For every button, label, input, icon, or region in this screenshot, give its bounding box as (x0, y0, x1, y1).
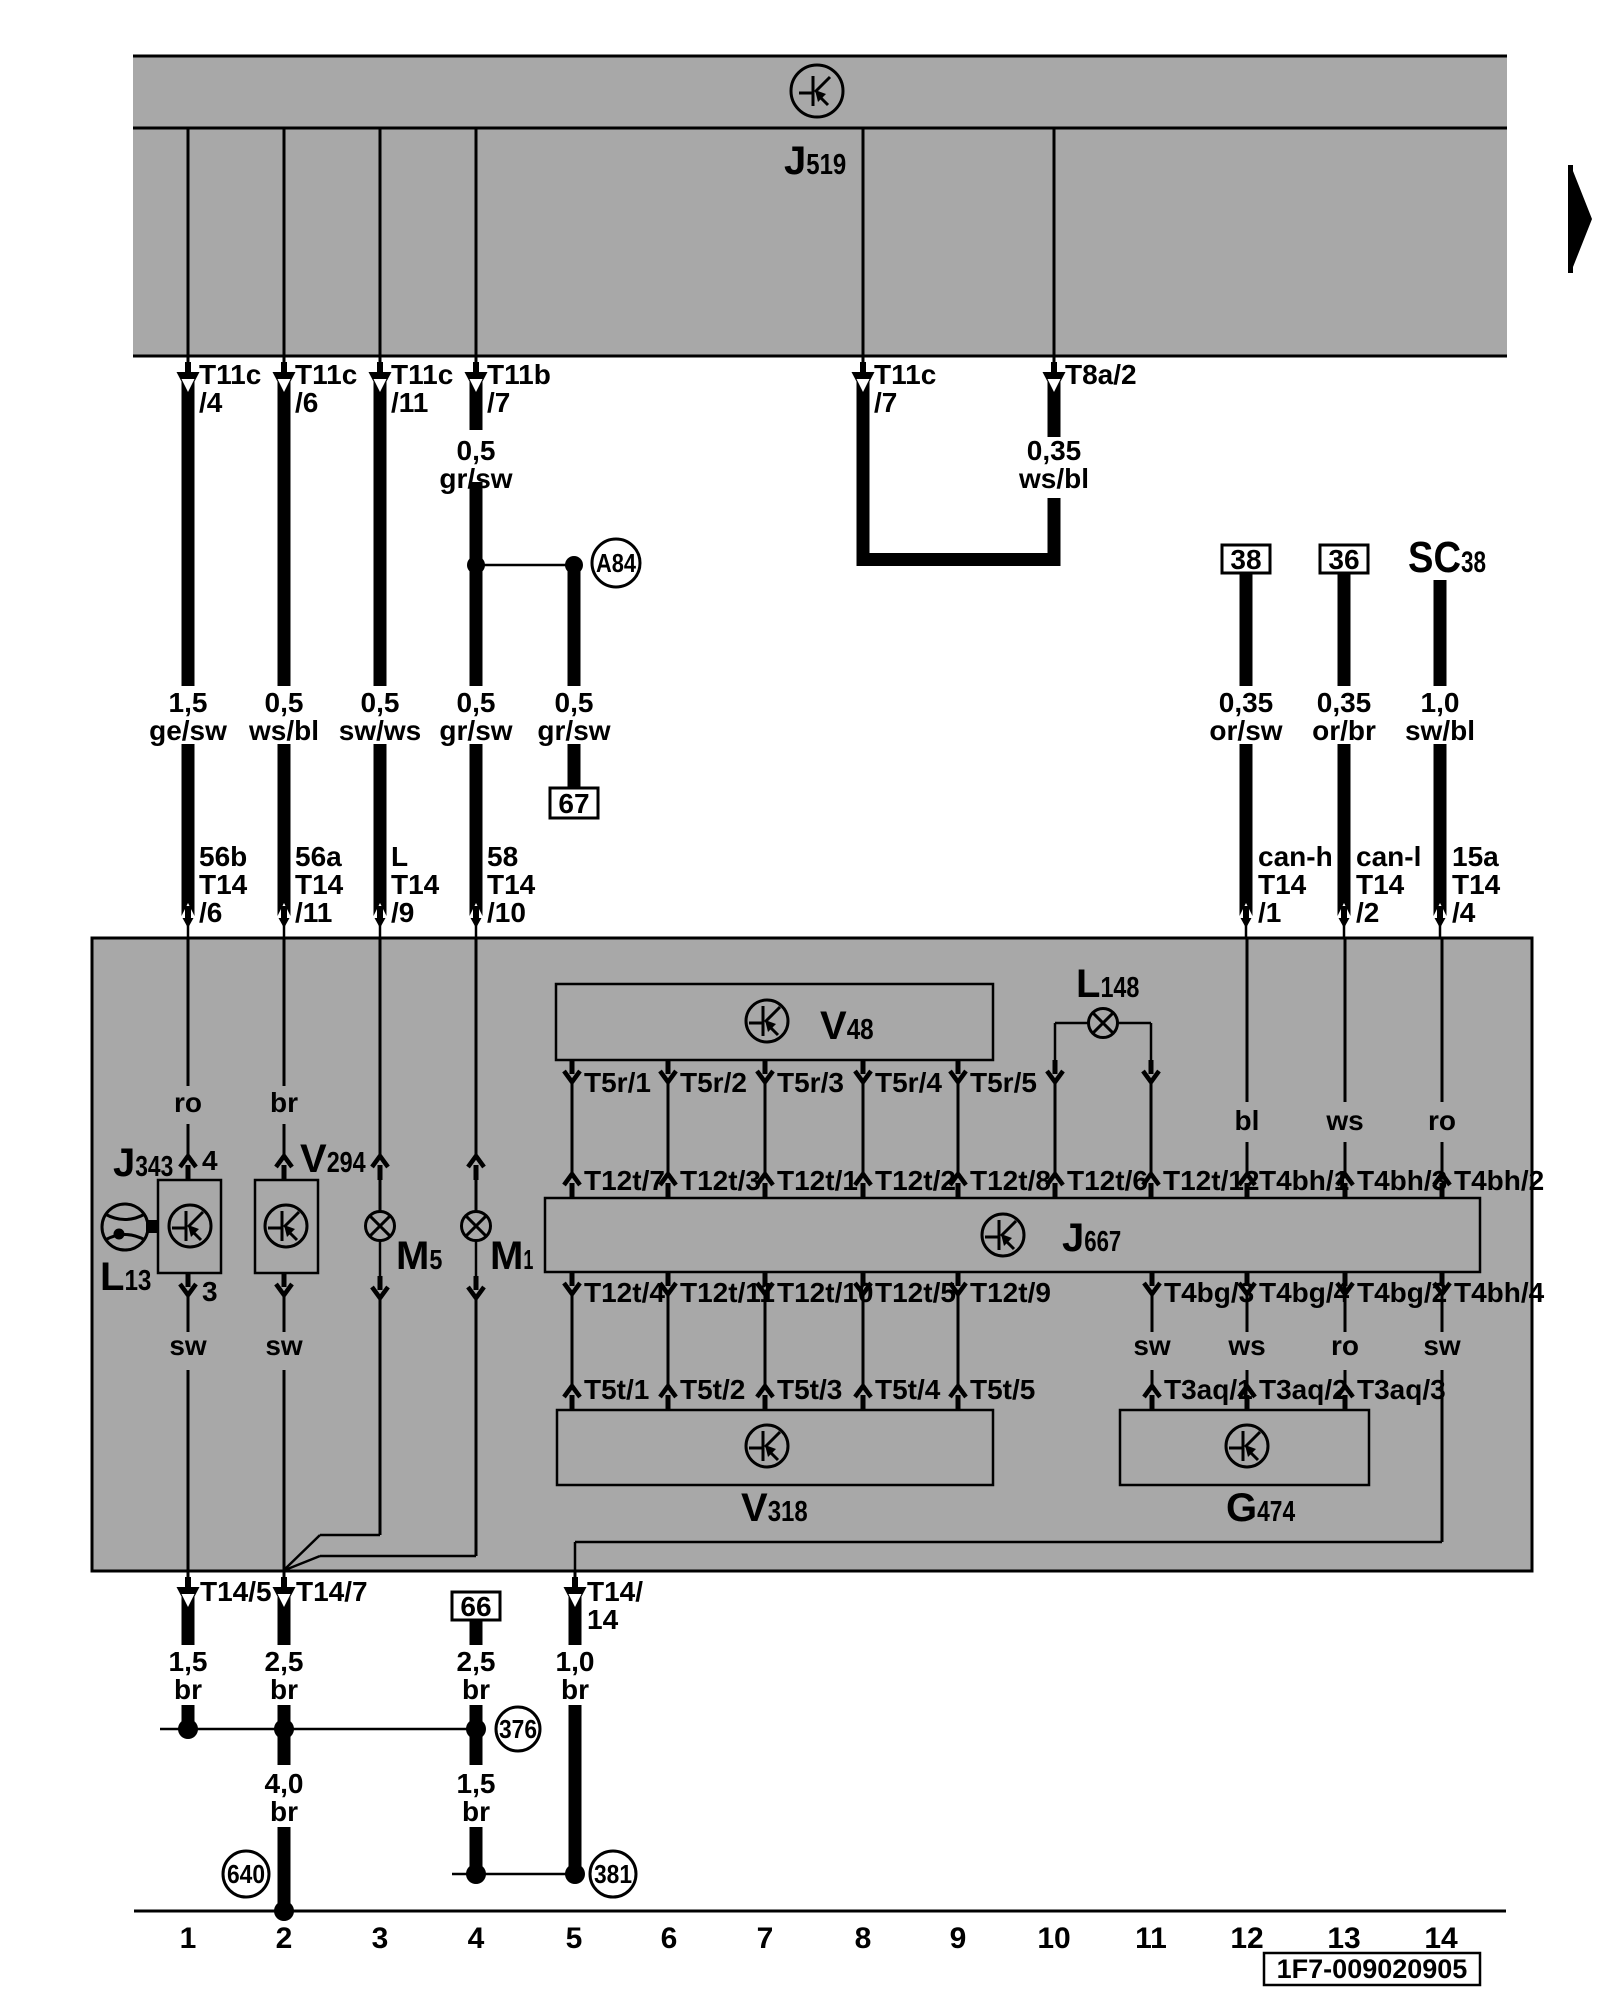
entry arrow into main box at x=1246 (1240, 903, 1253, 916)
svg-text:ro: ro (174, 1087, 202, 1118)
pin T12t/10 (757, 1272, 773, 1294)
svg-text:4,0: 4,0 (265, 1768, 304, 1799)
node label 381 (590, 1851, 636, 1897)
wire stub inside J519 at x=1054 (1053, 128, 1056, 356)
pin T12t/7 (564, 1174, 580, 1198)
svg-text:br: br (270, 1796, 298, 1827)
motor M5 (366, 1212, 395, 1241)
wire stub inside J519 at x=863 (862, 128, 865, 356)
svg-text:T12t/2: T12t/2 (875, 1165, 956, 1196)
pin T5r/5 (950, 1060, 966, 1082)
svg-text:sw/ws: sw/ws (339, 715, 421, 746)
node label 376 (496, 1707, 540, 1751)
glow plug indicator L13 (102, 1204, 148, 1250)
ground wire col2 (278, 1593, 291, 1645)
pin T3aq/1 (1144, 1386, 1160, 1410)
svg-text:T3aq/1: T3aq/1 (1164, 1374, 1253, 1405)
pin T5t/4 (855, 1386, 871, 1410)
connector arrow below J519 at x=476 (475, 356, 478, 364)
terminal box 66 (452, 1591, 500, 1622)
svg-text:1F7-009020905: 1F7-009020905 (1277, 1954, 1468, 1984)
svg-text:ro: ro (1428, 1105, 1456, 1136)
sensor G474 box (1120, 1410, 1369, 1485)
svg-text:or/br: or/br (1312, 715, 1376, 746)
wire T4bh/4 routing to T14/14 (575, 1541, 1442, 1544)
entry arrow into main box at x=380 (374, 903, 387, 916)
svg-text:1,5: 1,5 (457, 1768, 496, 1799)
svg-text:T5r/5: T5r/5 (970, 1067, 1037, 1098)
svg-text:sw: sw (265, 1330, 303, 1361)
svg-text:br: br (270, 1674, 298, 1705)
svg-text:L: L (391, 841, 408, 872)
wire sw/bl from SC38 (1434, 580, 1447, 686)
svg-text:/1: /1 (1258, 897, 1281, 928)
wire stub inside J519 at x=380 (379, 128, 382, 356)
svg-text:T12t/8: T12t/8 (970, 1165, 1051, 1196)
svg-text:13: 13 (1327, 1922, 1360, 1955)
control module J667 box (545, 1198, 1480, 1272)
connector arrow below J519 at x=1054 (1053, 356, 1056, 364)
svg-text:T4bg/2: T4bg/2 (1357, 1277, 1447, 1308)
connector arrow below J519 at x=863 (862, 356, 865, 364)
wire T5r/1 to T12t/7 (571, 1082, 574, 1174)
svg-text:T11b: T11b (487, 359, 551, 390)
svg-text:T5r/2: T5r/2 (680, 1067, 747, 1098)
wire 56a (col2) upper thick (278, 378, 291, 686)
pin T3aq/2 (1239, 1386, 1255, 1410)
entry arrow into main box at x=1344 (1338, 903, 1351, 916)
wire 56b (col1) upper thick (182, 378, 195, 686)
wire T12t/9 to T5t/5 (957, 1294, 960, 1386)
wire stub inside J519 at x=476 (475, 128, 478, 356)
svg-text:15a: 15a (1452, 841, 1499, 872)
svg-text:T14: T14 (391, 869, 440, 900)
svg-text:or/sw: or/sw (1209, 715, 1282, 746)
svg-text:T12t/11: T12t/11 (680, 1277, 775, 1308)
L148 leads (1055, 1022, 1089, 1025)
svg-text:br: br (462, 1674, 490, 1705)
pin T12t/12 (1143, 1174, 1159, 1198)
wire col3 to M5 (379, 938, 382, 1156)
svg-text:br: br (174, 1674, 202, 1705)
svg-text:67: 67 (558, 788, 589, 819)
pin T12t/1 (757, 1174, 773, 1198)
ground wire col5 (569, 1593, 582, 1645)
next-page arrow (1568, 165, 1592, 273)
actuator V318 box (557, 1410, 993, 1485)
svg-text:T14: T14 (487, 869, 536, 900)
svg-text:T12t/6: T12t/6 (1067, 1165, 1148, 1196)
wire ws to T4bh/3 (1344, 938, 1347, 1102)
svg-text:2,5: 2,5 (265, 1646, 304, 1677)
svg-text:5: 5 (566, 1922, 583, 1955)
svg-text:0,35: 0,35 (1317, 687, 1372, 718)
ground wire col4 (470, 1620, 483, 1645)
svg-text:0,5: 0,5 (265, 687, 304, 718)
pin T5t/2 (660, 1386, 676, 1410)
wire or/br from 36 (1338, 573, 1351, 686)
pin T5r/4 (855, 1060, 871, 1082)
wire col1 lower thick (182, 744, 195, 916)
wire col2 lower thick (278, 744, 291, 916)
svg-text:T3aq/3: T3aq/3 (1357, 1374, 1446, 1405)
main component box (92, 938, 1532, 1571)
bottom rail (134, 1910, 1506, 1913)
svg-text:T12t/4: T12t/4 (584, 1277, 665, 1308)
wire L (col3) upper thick (374, 378, 387, 686)
svg-text:T12t/9: T12t/9 (970, 1277, 1051, 1308)
svg-text:8: 8 (855, 1922, 872, 1955)
svg-text:ws: ws (1325, 1105, 1363, 1136)
svg-text:br: br (462, 1796, 490, 1827)
pin T5r/1 (564, 1060, 580, 1082)
svg-text:T4bh/2: T4bh/2 (1454, 1165, 1544, 1196)
svg-text:3: 3 (202, 1276, 218, 1307)
wire T12t/10 to T5t/3 (764, 1294, 767, 1386)
node label 640 (223, 1851, 269, 1897)
exit arrow T14/7 (283, 1571, 286, 1579)
junction node col4 to A84 branch (476, 564, 574, 567)
exit arrow T14/14 (574, 1571, 577, 1579)
svg-text:T14/5: T14/5 (200, 1576, 272, 1607)
wire col1 inside (ro) (187, 938, 190, 1086)
svg-text:T5t/4: T5t/4 (875, 1374, 941, 1405)
svg-text:9: 9 (950, 1922, 967, 1955)
svg-text:T12t/7: T12t/7 (584, 1165, 665, 1196)
svg-text:ws: ws (1227, 1330, 1265, 1361)
connector arrow below J519 at x=284 (283, 356, 286, 364)
svg-text:ro: ro (1331, 1330, 1359, 1361)
relay V294 box (255, 1180, 318, 1273)
pin T4bg/3 (1144, 1272, 1160, 1294)
svg-text:T4bg/3: T4bg/3 (1164, 1277, 1254, 1308)
svg-text:0,35: 0,35 (1027, 435, 1082, 466)
svg-text:36: 36 (1328, 544, 1359, 575)
wire T12t/5 to T5t/4 (862, 1294, 865, 1386)
svg-text:12: 12 (1230, 1922, 1263, 1955)
svg-text:/6: /6 (295, 387, 318, 418)
node line 381 (452, 1873, 575, 1876)
svg-text:1,5: 1,5 (169, 1646, 208, 1677)
control module symbol (J519) (791, 65, 843, 117)
terminal box 67 (550, 788, 598, 819)
wire col2 below V294 (sw) (276, 1273, 292, 1295)
connector arrow below J519 at x=188 (187, 356, 190, 364)
pin T12t/9 (950, 1272, 966, 1294)
wire T5r/4 to T12t/2 (862, 1082, 865, 1174)
wire below T4bh/4 (sw) (1441, 1294, 1444, 1332)
svg-text:0,35: 0,35 (1219, 687, 1274, 718)
svg-text:T14: T14 (1356, 869, 1405, 900)
svg-text:T14: T14 (295, 869, 344, 900)
wire 58 (col4) thick segments (470, 378, 483, 430)
svg-text:10: 10 (1037, 1922, 1070, 1955)
svg-text:4: 4 (202, 1145, 218, 1176)
wire below T4bg/3 (sw) (1151, 1294, 1154, 1332)
wire col1 below J343 (sw) (180, 1273, 196, 1295)
svg-text:0,5: 0,5 (457, 435, 496, 466)
relay J343 box (158, 1180, 221, 1273)
svg-text:/2: /2 (1356, 897, 1379, 928)
wire ro to T4bh/2 (1441, 938, 1444, 1102)
svg-text:T5t/3: T5t/3 (777, 1374, 842, 1405)
wire col4 below M1 (475, 1240, 478, 1277)
entry arrow into main box at x=476 (470, 903, 483, 916)
pin T4bg/4 (1239, 1272, 1255, 1294)
svg-text:14: 14 (587, 1604, 619, 1635)
pin T5r/3 (757, 1060, 773, 1082)
svg-text:1: 1 (180, 1922, 197, 1955)
motor M1 (462, 1212, 491, 1241)
entry arrow into main box at x=1440 (1434, 903, 1447, 916)
actuator V48 box (556, 984, 993, 1060)
node label A84 (592, 539, 640, 587)
svg-text:376: 376 (499, 1714, 537, 1744)
svg-text:T14/7: T14/7 (296, 1576, 368, 1607)
exit arrow T14/5 (187, 1571, 190, 1579)
svg-text:br: br (270, 1087, 298, 1118)
svg-text:/6: /6 (199, 897, 222, 928)
svg-text:T11c: T11c (874, 359, 936, 390)
svg-text:sw/bl: sw/bl (1405, 715, 1475, 746)
pin T3aq/3 (1337, 1386, 1353, 1410)
pin T12t/3 (660, 1174, 676, 1198)
node line 376 (160, 1728, 476, 1731)
svg-text:T12t/3: T12t/3 (680, 1165, 761, 1196)
svg-text:1,0: 1,0 (1421, 687, 1460, 718)
wire or/sw from 38 (1240, 573, 1253, 686)
svg-text:T11c: T11c (199, 359, 261, 390)
svg-text:2: 2 (276, 1922, 293, 1955)
pin T12t/5 (855, 1272, 871, 1294)
ground wire col1 (182, 1593, 195, 1645)
svg-text:T11c: T11c (391, 359, 453, 390)
svg-text:58: 58 (487, 841, 518, 872)
svg-text:2,5: 2,5 (457, 1646, 496, 1677)
wire col2 inside (br) (283, 938, 286, 1086)
wire col3 lower thick (374, 744, 387, 916)
svg-text:14: 14 (1424, 1922, 1458, 1955)
svg-text:T5r/3: T5r/3 (777, 1067, 844, 1098)
svg-text:can-h: can-h (1258, 841, 1333, 872)
svg-text:T12t/10: T12t/10 (777, 1277, 874, 1308)
svg-text:T14: T14 (1258, 869, 1307, 900)
svg-text:ge/sw: ge/sw (149, 715, 227, 746)
pin T12t/11 (660, 1272, 676, 1294)
terminal box 36 (1320, 544, 1368, 575)
svg-text:gr/sw: gr/sw (439, 463, 512, 494)
svg-text:T8a/2: T8a/2 (1065, 359, 1137, 390)
svg-text:/11: /11 (295, 897, 332, 928)
svg-text:T11c: T11c (295, 359, 357, 390)
wire col4 to M1 (475, 938, 478, 1156)
svg-text:38: 38 (1230, 544, 1261, 575)
svg-text:T12t/1: T12t/1 (777, 1165, 858, 1196)
pin T5t/1 (564, 1386, 580, 1410)
pin T12t/4 (564, 1272, 580, 1294)
svg-text:/4: /4 (1452, 897, 1476, 928)
svg-text:ws/bl: ws/bl (248, 715, 319, 746)
svg-text:640: 640 (227, 1859, 265, 1889)
svg-text:56a: 56a (295, 841, 342, 872)
svg-text:T5r/4: T5r/4 (875, 1067, 942, 1098)
svg-text:0,5: 0,5 (555, 687, 594, 718)
svg-text:T14: T14 (199, 869, 248, 900)
svg-text:ws/bl: ws/bl (1018, 463, 1089, 494)
wire below T4bg/4 (ws) (1246, 1294, 1249, 1332)
svg-text:56b: 56b (199, 841, 247, 872)
pin T12t/2 (855, 1174, 871, 1198)
svg-text:/11: /11 (391, 387, 428, 418)
svg-text:gr/sw: gr/sw (439, 715, 512, 746)
wire stub inside J519 at x=284 (283, 128, 286, 356)
wire T5r/3 to T12t/1 (764, 1082, 767, 1174)
pin T12t/8 (950, 1174, 966, 1198)
svg-text:T4bh/4: T4bh/4 (1454, 1277, 1545, 1308)
svg-text:/7: /7 (487, 387, 510, 418)
wire below T4bg/2 (ro) (1344, 1294, 1347, 1332)
wire branch to terminal 67 (568, 565, 581, 686)
svg-text:bl: bl (1235, 1105, 1260, 1136)
svg-text:T5t/5: T5t/5 (970, 1374, 1035, 1405)
svg-text:0,5: 0,5 (361, 687, 400, 718)
connector arrow below J519 at x=380 (379, 356, 382, 364)
wire bl to T4bh/1 (1246, 938, 1249, 1102)
svg-text:6: 6 (661, 1922, 678, 1955)
wire col3 below M5 (379, 1240, 382, 1277)
terminal box 38 (1222, 544, 1270, 575)
pin T5t/3 (757, 1386, 773, 1410)
svg-text:T5r/1: T5r/1 (584, 1067, 651, 1098)
svg-text:1,5: 1,5 (169, 687, 208, 718)
svg-text:/9: /9 (391, 897, 414, 928)
svg-text:T4bg/4: T4bg/4 (1259, 1277, 1350, 1308)
wire U-loop col8 to col10 (857, 378, 870, 566)
svg-text:11: 11 (1135, 1922, 1167, 1955)
pin T5r/2 (660, 1060, 676, 1082)
pin T5t/5 (950, 1386, 966, 1410)
svg-text:T5t/2: T5t/2 (680, 1374, 745, 1405)
pin T12t/6 (1047, 1174, 1063, 1198)
pin T4bh/4 (1434, 1272, 1450, 1294)
svg-text:T14: T14 (1452, 869, 1501, 900)
wire T12t/4 to T5t/1 (571, 1294, 574, 1386)
white notches on thick wire ends (182, 379, 195, 392)
svg-text:A84: A84 (596, 548, 636, 578)
svg-text:4: 4 (468, 1922, 485, 1955)
svg-text:1,0: 1,0 (556, 1646, 595, 1677)
svg-text:sw: sw (1423, 1330, 1461, 1361)
svg-text:can-l: can-l (1356, 841, 1421, 872)
svg-text:sw: sw (1133, 1330, 1171, 1361)
svg-text:3: 3 (372, 1922, 389, 1955)
svg-text:/7: /7 (874, 387, 897, 418)
svg-text:/10: /10 (487, 897, 526, 928)
wire T5r/2 to T12t/3 (667, 1082, 670, 1174)
svg-text:sw: sw (169, 1330, 207, 1361)
svg-text:381: 381 (594, 1859, 632, 1889)
entry arrow into main box at x=188 (182, 903, 195, 916)
svg-text:/4: /4 (199, 387, 223, 418)
control module J519 box (133, 56, 1507, 356)
svg-text:br: br (561, 1674, 589, 1705)
diagram id box 1F7-009020905 (1264, 1953, 1480, 1985)
svg-text:T4bh/1: T4bh/1 (1259, 1165, 1349, 1196)
entry arrow into main box at x=284 (278, 903, 291, 916)
svg-text:T4bh/3: T4bh/3 (1357, 1165, 1447, 1196)
svg-text:T3aq/2: T3aq/2 (1259, 1374, 1348, 1405)
pin T4bg/2 (1337, 1272, 1353, 1294)
wire T5r/5 to T12t/8 (957, 1082, 960, 1174)
wire stub inside J519 at x=188 (187, 128, 190, 356)
svg-text:0,5: 0,5 (457, 687, 496, 718)
svg-text:T14/: T14/ (587, 1576, 643, 1607)
svg-text:7: 7 (757, 1922, 774, 1955)
wire T12t/11 to T5t/2 (667, 1294, 670, 1386)
svg-text:gr/sw: gr/sw (537, 715, 610, 746)
svg-text:T5t/1: T5t/1 (584, 1374, 649, 1405)
svg-text:T12t/5: T12t/5 (875, 1277, 956, 1308)
svg-text:66: 66 (460, 1591, 491, 1622)
